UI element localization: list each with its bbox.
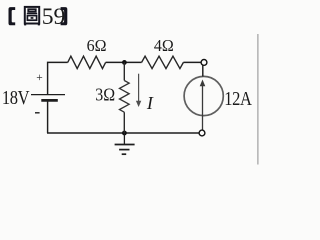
title glyph 圖 <box>24 7 40 26</box>
svg-text:4Ω: 4Ω <box>154 35 174 55</box>
svg-text:3Ω: 3Ω <box>95 85 115 105</box>
junction dot bottom <box>122 131 127 136</box>
voltage source V1 battery plates <box>31 95 65 101</box>
ground <box>115 133 135 154</box>
wire R3 to bottom <box>123 112 125 133</box>
wire between R1 and node A <box>106 61 142 63</box>
node A junction dot top <box>122 60 127 65</box>
wire R2 to top terminal <box>183 61 201 63</box>
svg-text:12A: 12A <box>224 88 252 110</box>
page border line right <box>257 34 259 165</box>
title bracket right 】 <box>61 7 68 25</box>
wire node A to R3 <box>123 62 125 80</box>
wire battery to bottom <box>47 100 49 133</box>
resistor R3 3Ω vertical zigzag <box>120 81 130 113</box>
wire top-left segment <box>48 62 68 94</box>
wire bottom <box>47 132 199 134</box>
resistor R1 6Ω zigzag <box>68 56 106 68</box>
svg-text:6Ω: 6Ω <box>87 36 107 56</box>
svg-text:+: + <box>36 72 43 84</box>
current source U1 circle <box>184 76 223 115</box>
svg-text:I: I <box>146 93 154 113</box>
polarity minus <box>35 112 40 114</box>
current arrow I <box>136 74 141 107</box>
terminal open circle bottom <box>199 130 205 136</box>
current source arrow <box>200 80 206 131</box>
resistor R2 4Ω zigzag <box>142 56 184 68</box>
wire top terminal to source <box>202 65 204 76</box>
svg-text:18V: 18V <box>2 86 30 108</box>
title bracket left 【 <box>9 7 16 25</box>
terminal open circle top <box>201 60 207 66</box>
